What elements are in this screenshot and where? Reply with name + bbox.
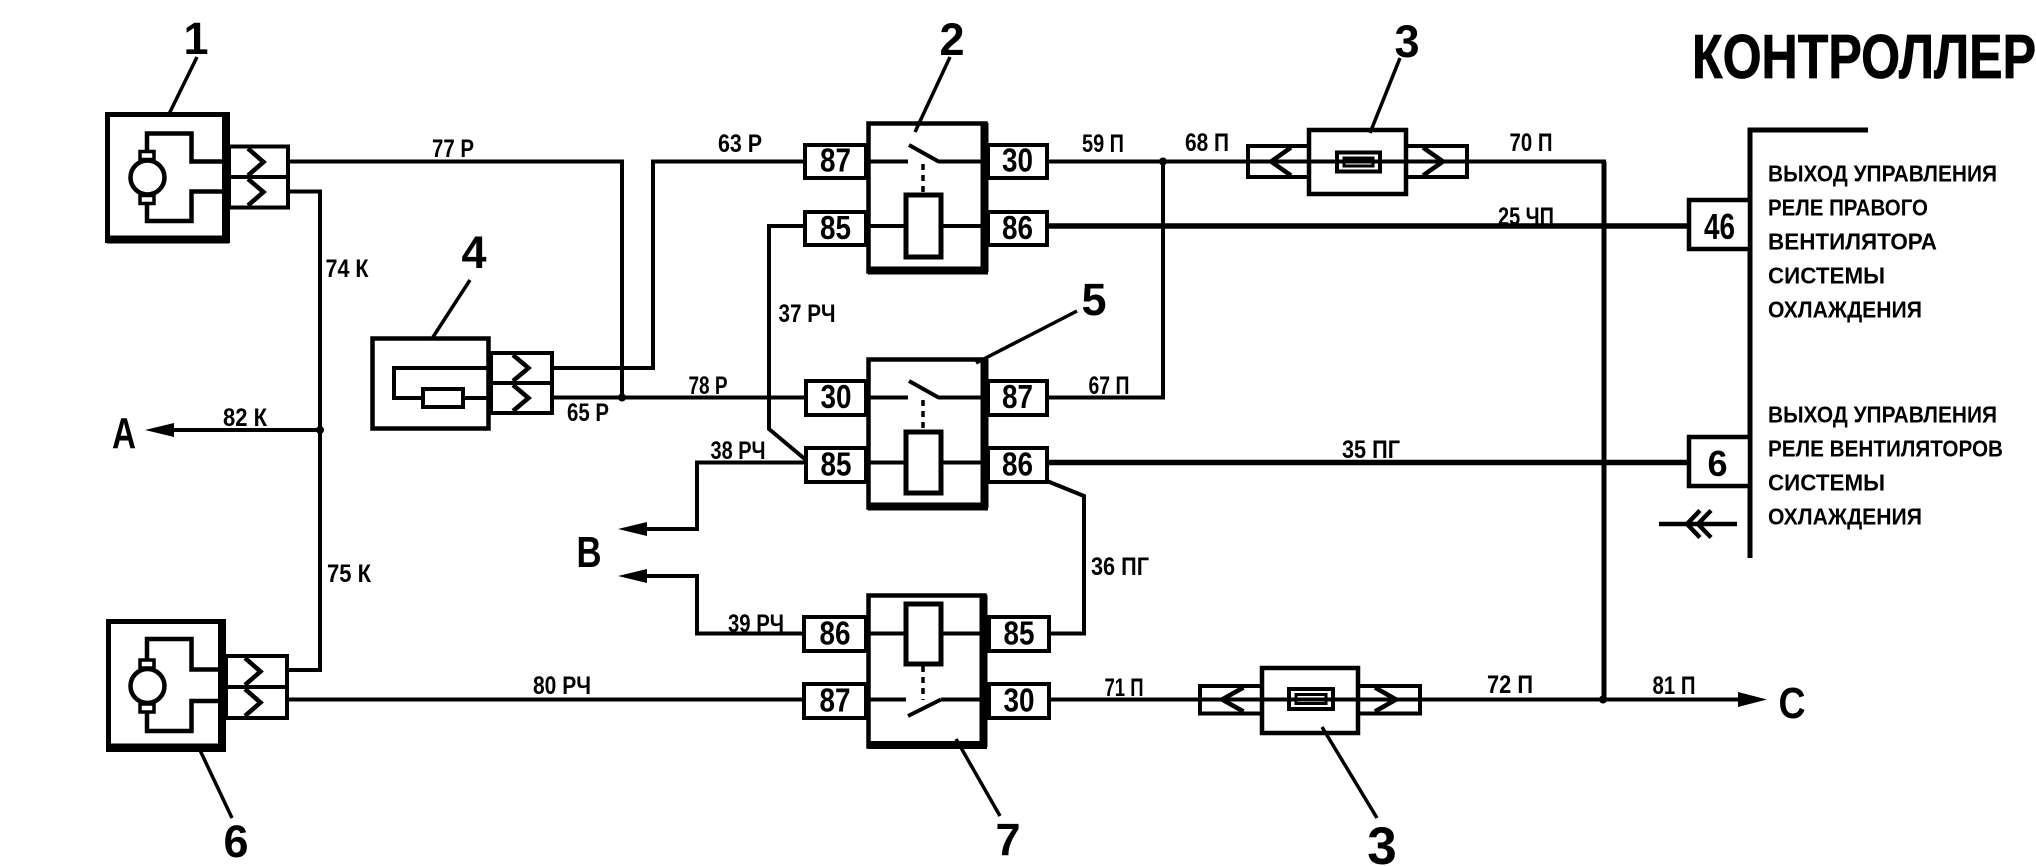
fuse 3 bottom right connector bbox=[1358, 686, 1420, 714]
svg-text:ОХЛАЖДЕНИЯ: ОХЛАЖДЕНИЯ bbox=[1768, 297, 1922, 323]
controller bracket bbox=[1750, 130, 1868, 558]
svg-text:25 ЧП: 25 ЧП bbox=[1498, 203, 1554, 231]
relay 7 pin 87 box bbox=[804, 684, 866, 718]
node C arrowhead bbox=[1738, 692, 1767, 707]
relay 7 box bbox=[868, 595, 987, 747]
svg-text:СИСТЕМЫ: СИСТЕМЫ bbox=[1768, 470, 1885, 496]
wire 65Р/78Р comp4 lower to relay5 pin30 bbox=[552, 396, 806, 400]
svg-text:46: 46 bbox=[1704, 206, 1735, 247]
svg-text:6: 6 bbox=[223, 816, 248, 866]
label 3 top leader bbox=[1370, 58, 1400, 133]
relay 5 box bbox=[868, 359, 988, 508]
svg-text:2: 2 bbox=[939, 14, 964, 65]
fan motor 1 box bbox=[107, 114, 229, 241]
wire 70П down leg to 72П bbox=[1602, 162, 1607, 700]
svg-text:85: 85 bbox=[821, 446, 852, 483]
label 7 leader bbox=[956, 739, 1000, 816]
wire 25ЧП relay2 pin86 to controller pin46 bbox=[1047, 223, 1689, 229]
svg-text:ВЕНТИЛЯТОРА: ВЕНТИЛЯТОРА bbox=[1768, 229, 1937, 255]
wire 38РЧ node B to relay5 pin85 bbox=[647, 463, 806, 530]
svg-text:38 РЧ: 38 РЧ bbox=[711, 437, 766, 465]
fuse 3 top left connector bbox=[1248, 146, 1309, 177]
relay 7 actuator dashed link bbox=[921, 666, 925, 700]
svg-text:72 П: 72 П bbox=[1487, 671, 1533, 699]
svg-text:30: 30 bbox=[821, 378, 852, 415]
svg-text:78 Р: 78 Р bbox=[689, 372, 728, 400]
svg-text:59 П: 59 П bbox=[1082, 130, 1124, 158]
svg-text:70 П: 70 П bbox=[1510, 129, 1553, 157]
svg-text:35 ПГ: 35 ПГ bbox=[1342, 436, 1400, 464]
svg-text:С: С bbox=[1779, 679, 1806, 728]
svg-text:87: 87 bbox=[820, 682, 851, 719]
svg-text:РЕЛЕ ПРАВОГО: РЕЛЕ ПРАВОГО bbox=[1768, 195, 1928, 221]
svg-text:85: 85 bbox=[820, 209, 851, 246]
fuse 3 top element bbox=[1337, 153, 1380, 172]
svg-text:65 Р: 65 Р bbox=[567, 399, 609, 427]
wire to node A bbox=[173, 428, 320, 432]
label 3 bottom leader bbox=[1322, 727, 1377, 818]
motor 6 brush bottom bbox=[140, 704, 154, 712]
junction 82К bbox=[316, 426, 324, 434]
wire 35ПГ relay5 pin86 to controller pin6 bbox=[1047, 460, 1689, 466]
motor 1 connector bbox=[229, 147, 288, 208]
fuse 3 top holder bbox=[1309, 130, 1406, 194]
fan motor 6 box bbox=[108, 621, 225, 750]
sensor 4 connector bbox=[491, 353, 552, 413]
label 5 leader bbox=[976, 311, 1077, 363]
relay 7 coil bbox=[868, 604, 986, 664]
wire 67П relay5 pin87 to node 68П bbox=[1047, 162, 1163, 398]
svg-text:68 П: 68 П bbox=[1185, 129, 1229, 157]
svg-text:5: 5 bbox=[1081, 274, 1106, 325]
motor 6 brush top bbox=[140, 660, 154, 668]
relay 2 pin 87 box bbox=[805, 145, 866, 178]
relay 2 switch bbox=[868, 145, 986, 162]
label 1 leader bbox=[169, 57, 197, 114]
controller output text right fan bbox=[1768, 161, 1997, 323]
svg-text:4: 4 bbox=[461, 227, 486, 278]
motor 1 rotor circle bbox=[131, 161, 165, 195]
relay 2 coil bbox=[868, 195, 988, 257]
svg-text:77 Р: 77 Р bbox=[432, 135, 474, 163]
relay 7 switch bbox=[868, 700, 986, 717]
svg-text:37 РЧ: 37 РЧ bbox=[779, 300, 836, 328]
svg-text:ВЫХОД УПРАВЛЕНИЯ: ВЫХОД УПРАВЛЕНИЯ bbox=[1768, 402, 1997, 428]
svg-text:86: 86 bbox=[820, 615, 851, 652]
svg-text:87: 87 bbox=[820, 142, 851, 179]
relay 2 pin 30 box bbox=[988, 145, 1047, 178]
svg-text:3: 3 bbox=[1367, 817, 1396, 866]
fuse 3 bottom holder bbox=[1262, 668, 1358, 733]
svg-text:36 ПГ: 36 ПГ bbox=[1091, 553, 1149, 581]
controller pin 6 box bbox=[1689, 437, 1750, 486]
svg-text:3: 3 bbox=[1394, 16, 1419, 67]
fuse 3 top right connector bbox=[1406, 146, 1467, 177]
relay 2 pin 85 box bbox=[805, 212, 866, 245]
motor 6 armature bracket bbox=[147, 639, 226, 731]
relay 5 pin 86 box bbox=[988, 448, 1047, 482]
svg-text:РЕЛЕ ВЕНТИЛЯТОРОВ: РЕЛЕ ВЕНТИЛЯТОРОВ bbox=[1768, 436, 2003, 462]
svg-text:74 К: 74 К bbox=[326, 255, 370, 283]
svg-text:86: 86 bbox=[1002, 446, 1033, 483]
node A arrowhead bbox=[145, 423, 174, 437]
label 6 leader bbox=[198, 746, 232, 818]
fuse 3 bottom left connector bbox=[1200, 686, 1262, 714]
svg-text:87: 87 bbox=[1002, 378, 1033, 415]
junction 68П bbox=[1159, 158, 1167, 166]
svg-text:6: 6 bbox=[1707, 443, 1727, 484]
svg-text:ВЫХОД УПРАВЛЕНИЯ: ВЫХОД УПРАВЛЕНИЯ bbox=[1768, 161, 1997, 187]
wire 77Р motor1 to junction 65Р bbox=[288, 162, 622, 398]
svg-text:КОНТРОЛЛЕР: КОНТРОЛЛЕР bbox=[1692, 23, 2036, 92]
wire 80РЧ motor6 to relay7 pin87 bbox=[288, 698, 804, 702]
svg-text:86: 86 bbox=[1002, 209, 1033, 246]
motor 1 armature bracket bbox=[147, 134, 229, 222]
svg-text:81 П: 81 П bbox=[1653, 672, 1696, 700]
relay 5 pin 85 box bbox=[806, 448, 866, 482]
sensor 4 box bbox=[373, 339, 489, 429]
relay 5 switch bbox=[868, 381, 986, 398]
relay 7 pin 30 box bbox=[989, 684, 1049, 718]
wire 71П/72П/81П relay7 pin30 through fuse to node C bbox=[1049, 698, 1738, 702]
wire 63Р comp4 upper to relay2 pin87 bbox=[552, 162, 805, 369]
wire 39РЧ node B to relay7 pin86 bbox=[647, 576, 804, 634]
junction 65Р bbox=[618, 394, 626, 402]
motor 6 connector bbox=[226, 656, 287, 718]
relay 5 pin 30 box bbox=[806, 381, 866, 415]
motor 1 brush bottom bbox=[140, 196, 154, 204]
relay 7 pin 86 box bbox=[804, 617, 866, 651]
svg-text:71 П: 71 П bbox=[1105, 674, 1144, 702]
svg-text:7: 7 bbox=[995, 814, 1020, 865]
harness continuation arrow bbox=[1659, 511, 1737, 538]
svg-text:39 РЧ: 39 РЧ bbox=[728, 610, 784, 638]
relay 7 pin 85 box bbox=[989, 617, 1049, 651]
svg-text:75 К: 75 К bbox=[327, 560, 372, 588]
svg-text:В: В bbox=[577, 528, 602, 577]
node B lower arrowhead bbox=[618, 569, 647, 583]
relay 2 box bbox=[868, 123, 988, 272]
relay 2 actuator dashed link bbox=[921, 164, 925, 195]
motor 6 rotor circle bbox=[131, 669, 165, 703]
label 2 leader bbox=[915, 57, 950, 132]
relay 5 actuator dashed link bbox=[921, 400, 925, 432]
svg-text:63 Р: 63 Р bbox=[718, 130, 762, 158]
svg-text:30: 30 bbox=[1002, 142, 1033, 179]
wire 59П/68П/70П relay2 pin30 through fuse, down right side bbox=[1047, 160, 1606, 164]
relay 5 coil bbox=[868, 432, 988, 493]
svg-text:30: 30 bbox=[1004, 682, 1035, 719]
wire 37РЧ relay2 pin85 to relay5 pin85 bbox=[769, 226, 806, 460]
motor 1 brush top bbox=[140, 152, 154, 160]
wire 36ПГ relay5 pin86 to relay7 pin85 bbox=[1047, 481, 1084, 634]
sensor 4 element bbox=[394, 368, 491, 398]
svg-text:1: 1 bbox=[183, 13, 208, 64]
fuse 3 bottom element bbox=[1289, 689, 1333, 709]
svg-text:80 РЧ: 80 РЧ bbox=[533, 672, 591, 700]
relay 5 pin 87 box bbox=[988, 381, 1047, 415]
controller output text fans bbox=[1768, 402, 2003, 530]
svg-text:СИСТЕМЫ: СИСТЕМЫ bbox=[1768, 263, 1885, 289]
svg-text:85: 85 bbox=[1004, 615, 1035, 652]
wire 74К/75К motor1 lower to motor6 upper bbox=[288, 192, 320, 671]
controller pin 46 box bbox=[1689, 200, 1750, 249]
svg-text:ОХЛАЖДЕНИЯ: ОХЛАЖДЕНИЯ bbox=[1768, 504, 1922, 530]
node B upper arrowhead bbox=[618, 522, 647, 536]
sensor 4 element body bbox=[423, 389, 463, 407]
svg-text:82 К: 82 К bbox=[223, 404, 268, 432]
svg-text:67 П: 67 П bbox=[1089, 372, 1130, 400]
svg-text:А: А bbox=[112, 409, 136, 458]
relay 2 pin 86 box bbox=[988, 212, 1047, 245]
label 4 leader bbox=[433, 280, 470, 337]
junction 81П bbox=[1599, 696, 1607, 704]
